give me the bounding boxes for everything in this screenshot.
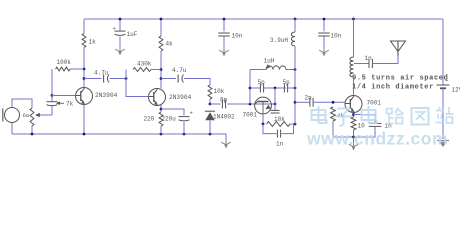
transistor Q4 <box>345 96 362 113</box>
wire C15 to antenna <box>372 55 398 64</box>
svg-text:1n: 1n <box>365 55 373 62</box>
wire battery to ground <box>442 89 444 139</box>
svg-text:12V: 12V <box>452 87 460 94</box>
svg-text:1uF: 1uF <box>127 31 138 38</box>
label Q1 2N3904 <box>95 92 118 99</box>
label 9.5 turns <box>352 75 448 83</box>
node tank top <box>352 18 355 21</box>
svg-text:+: + <box>113 25 116 32</box>
label 3.9uH <box>270 37 288 44</box>
label 220u <box>162 116 177 123</box>
resistor R4 430k <box>133 68 151 72</box>
label 2n <box>305 95 313 102</box>
wire D1 to rail <box>209 121 211 135</box>
wire C12 to ground <box>323 36 325 48</box>
antenna ANT1 <box>391 41 406 56</box>
label Q3 7001 <box>243 112 258 119</box>
wire Q1 base wire <box>52 95 76 97</box>
wire R6 to rail <box>160 126 162 134</box>
svg-text:4k: 4k <box>166 41 174 48</box>
wire caps right <box>288 87 295 89</box>
wire C6 to rail <box>183 122 185 134</box>
svg-text:1N4002: 1N4002 <box>213 114 235 121</box>
wire Q2 base path <box>126 79 148 97</box>
label Q2 2N3904 <box>169 94 192 101</box>
node Q3 emitter net left <box>262 123 265 126</box>
wire R2 corner down to base node <box>51 69 53 96</box>
wire 18k right lead <box>290 123 295 125</box>
svg-text:10k: 10k <box>214 88 225 95</box>
wire C4 to ground <box>223 36 225 48</box>
node Q4 emitter <box>352 113 355 116</box>
label 10 ohm <box>358 123 366 130</box>
ground below C4 <box>219 48 229 56</box>
node Q2 collector junction <box>160 77 163 80</box>
wire rail to choke <box>294 19 296 32</box>
resistor R1 1k <box>82 34 86 48</box>
capacitor C3 4.7u <box>104 75 109 83</box>
label 1/4 inch <box>352 84 434 92</box>
node Q2 emitter <box>160 108 163 111</box>
node Q1 base <box>51 94 54 97</box>
label 430k <box>137 61 152 68</box>
label 1k <box>89 39 97 46</box>
wire choke down <box>294 46 296 124</box>
label 4k <box>166 41 174 48</box>
wire emitter to C6 <box>161 109 184 115</box>
node ground right <box>352 136 355 139</box>
wire C13 to Q4 base <box>313 101 345 103</box>
label 220 <box>144 116 155 123</box>
svg-text:7001: 7001 <box>367 100 382 107</box>
node rail Q1 emitter <box>83 133 86 136</box>
svg-text:1k: 1k <box>89 39 97 46</box>
label 10n right <box>331 33 342 40</box>
wire node to C7 <box>210 103 221 105</box>
node C4 top <box>223 18 226 21</box>
svg-text:+: + <box>445 77 448 84</box>
transistor Q3 <box>255 97 272 114</box>
label 5p second <box>283 79 291 86</box>
wire cap below node <box>274 88 276 111</box>
wire mic resistor to rail <box>31 126 33 134</box>
capacitor C12 10n <box>318 33 330 36</box>
resistor R5 10k <box>208 85 212 99</box>
watermark url <box>306 129 448 149</box>
capacitor C2 mic coupling <box>47 102 58 106</box>
wire C1 lead <box>119 19 121 31</box>
svg-text:1uH: 1uH <box>264 58 275 65</box>
node Q1 bias junction <box>83 68 86 71</box>
wire C14 to ground node <box>354 126 376 137</box>
wire C1 to ground <box>119 37 121 48</box>
wire C5 to corner and down <box>184 79 210 86</box>
wire R3 to Q2 collector <box>160 51 162 88</box>
wire Q4 emitter <box>353 113 355 117</box>
microphone MIC <box>3 108 20 123</box>
svg-text:10n: 10n <box>232 33 243 40</box>
label 1N4002 <box>213 114 235 121</box>
wire C7 to Q3 <box>228 103 276 105</box>
ground battery <box>437 141 449 148</box>
svg-text:6a: 6a <box>23 112 30 119</box>
svg-text:18k: 18k <box>274 116 285 123</box>
wire 1uH corner column <box>249 70 251 105</box>
capacitor C4 10n <box>218 33 230 36</box>
wire caps mid <box>264 87 287 89</box>
svg-text:5p: 5p <box>283 79 291 86</box>
svg-text:430k: 430k <box>137 61 152 68</box>
svg-text:1n: 1n <box>276 141 284 148</box>
node C12 top <box>323 18 326 21</box>
svg-text:www.cndzz.com: www.cndzz.com <box>306 129 448 149</box>
wire emitter to C14 <box>354 115 376 123</box>
inductor L3 tank coil <box>350 57 354 77</box>
svg-text:1/4 inch diameter: 1/4 inch diameter <box>352 84 434 92</box>
capacitor C5 4.7u <box>178 75 183 83</box>
wire rail to C4 <box>223 19 225 31</box>
wire rail to C12 <box>323 19 325 31</box>
svg-text:6p: 6p <box>220 97 228 104</box>
node choke 2n junction <box>294 101 297 104</box>
wire Q1 emitter down <box>83 105 85 134</box>
resistor R7 18k <box>267 122 291 127</box>
node choke top <box>294 18 297 21</box>
label 5p first <box>258 79 266 86</box>
resistor R8 4k <box>331 107 336 121</box>
ground right <box>349 142 359 150</box>
wire caps left <box>250 87 260 89</box>
watermark site name <box>312 106 454 126</box>
wire 1uH left corner <box>250 69 266 71</box>
wire top-left corner down to R1 <box>83 19 85 34</box>
node Q1 collector junction <box>83 77 86 80</box>
wire R1 to collector node <box>83 48 85 88</box>
label 18k <box>274 116 285 123</box>
capacitor C9 5p <box>284 84 287 93</box>
svg-text:2N3904: 2N3904 <box>95 92 118 99</box>
node rail diode <box>209 133 212 136</box>
label 1n bottom <box>276 141 284 148</box>
svg-text:2n: 2n <box>305 95 313 102</box>
wire base node to C2 <box>51 96 53 102</box>
capacitor C7 6p <box>222 100 225 109</box>
resistor R3 4k <box>159 36 163 51</box>
svg-text:2N3904: 2N3904 <box>169 94 192 101</box>
transistor Q2 <box>149 89 166 106</box>
label 7k <box>66 101 74 108</box>
label 1n right <box>385 123 393 130</box>
svg-text:9.5 turns air spaced: 9.5 turns air spaced <box>352 75 448 83</box>
capacitor C14 1n <box>369 123 382 126</box>
wire rail to tank coil <box>353 19 355 57</box>
label arrow 1uH <box>265 64 270 69</box>
wire R9 to ground node <box>353 130 355 137</box>
node Q3 emitter net right <box>294 123 297 126</box>
node Q2 base top <box>125 77 128 80</box>
wire R5 to node <box>209 99 211 104</box>
wire R4 right lead <box>151 69 161 71</box>
svg-text:7001: 7001 <box>243 112 258 119</box>
wire C11 loop <box>263 124 294 134</box>
label 4k right <box>337 112 344 119</box>
diode D1 1N4002 <box>205 111 215 120</box>
wire choke to C13 <box>295 101 310 103</box>
svg-text:3.9uH: 3.9uH <box>270 37 288 44</box>
svg-text:100k: 100k <box>57 59 72 66</box>
wire Q3 emitter <box>262 114 264 124</box>
transistor Q1 <box>76 88 93 105</box>
node rail x161 <box>160 18 163 21</box>
wire V+ top rail <box>84 18 443 20</box>
node Q3 right <box>274 103 277 106</box>
node R5 diode junction <box>209 103 212 106</box>
label 1uF <box>127 31 138 38</box>
wire tank coil to Q4 collector <box>353 77 355 95</box>
svg-text:220: 220 <box>144 116 155 123</box>
battery BT1 12V <box>437 77 450 88</box>
capacitor C6 220u <box>179 117 190 121</box>
node caps wire left <box>249 87 252 90</box>
svg-text:5p: 5p <box>258 79 266 86</box>
label 10n left <box>232 33 243 40</box>
node caps mid <box>274 87 277 90</box>
capacitor C10 small <box>271 110 280 113</box>
node rail R-220 <box>160 133 163 136</box>
svg-text:7k: 7k <box>66 101 74 108</box>
resistor R6 220 <box>159 112 163 126</box>
label 6p <box>220 97 228 104</box>
arrow into mic resistor <box>35 113 40 117</box>
label 6a <box>23 112 30 119</box>
ground bottom rail <box>221 140 231 148</box>
svg-text:+: + <box>190 110 193 117</box>
label 4.7u first <box>94 70 109 77</box>
wire mic top loop <box>12 99 32 108</box>
node C1 top <box>119 18 122 21</box>
wire R2 right lead <box>70 68 84 70</box>
inductor L1 1uH <box>267 66 287 70</box>
label 4.7u second <box>172 67 187 74</box>
svg-text:220u: 220u <box>162 116 177 123</box>
label C6 plus <box>190 110 193 117</box>
inductor L2 3.9uH <box>291 32 295 46</box>
wire top-right corner down to battery <box>442 19 444 85</box>
node rail C-220u <box>183 133 186 136</box>
capacitor C8 5p <box>260 84 263 93</box>
wire C2 down and left to mic element <box>39 106 53 115</box>
svg-text:4.7u: 4.7u <box>94 70 109 77</box>
ground below C1 <box>115 47 125 55</box>
label 1uH <box>264 58 275 65</box>
label 1n antenna <box>365 55 373 62</box>
wire Q2 collector to C5 <box>161 78 176 80</box>
ground right stem <box>353 137 355 142</box>
wire ground rail bottom <box>12 134 226 140</box>
label C1 plus <box>113 25 116 32</box>
node Q2 bias junction <box>160 68 163 71</box>
capacitor C11 1n <box>277 130 280 138</box>
svg-text:10n: 10n <box>331 33 342 40</box>
wire rail to R3 <box>160 19 162 36</box>
wire Q1 collector to C3 <box>84 78 102 80</box>
resistor mic internal <box>30 108 34 126</box>
capacitor C13 2n <box>310 98 313 107</box>
capacitor C15 1n antenna <box>369 59 372 68</box>
wire 1uH right lead <box>286 69 295 71</box>
label arrow to C2 <box>56 102 64 105</box>
wire C3 to Q2 base node <box>110 78 127 80</box>
wire Q2 emitter <box>160 105 162 112</box>
wire tank tap <box>354 63 369 65</box>
label 10k <box>214 88 225 95</box>
label Q4 7001 <box>367 100 382 107</box>
node Q4 base resistor <box>332 101 335 104</box>
svg-text:4.7u: 4.7u <box>172 67 187 74</box>
resistor R2 100k <box>56 67 71 71</box>
capacitor C1 1uF <box>115 31 126 35</box>
node rail mic <box>31 133 34 136</box>
wire R4 corner to base node <box>125 70 127 79</box>
label 100k <box>57 59 72 66</box>
node 1uH right <box>294 68 297 71</box>
wire R8 to ground wire <box>333 121 354 137</box>
ground below C12 <box>319 48 329 56</box>
node Q3 left <box>249 103 252 106</box>
resistor R9 10 <box>351 117 356 130</box>
label 12V <box>452 87 460 94</box>
wire mic bottom <box>11 123 13 134</box>
node caps right <box>294 87 297 90</box>
